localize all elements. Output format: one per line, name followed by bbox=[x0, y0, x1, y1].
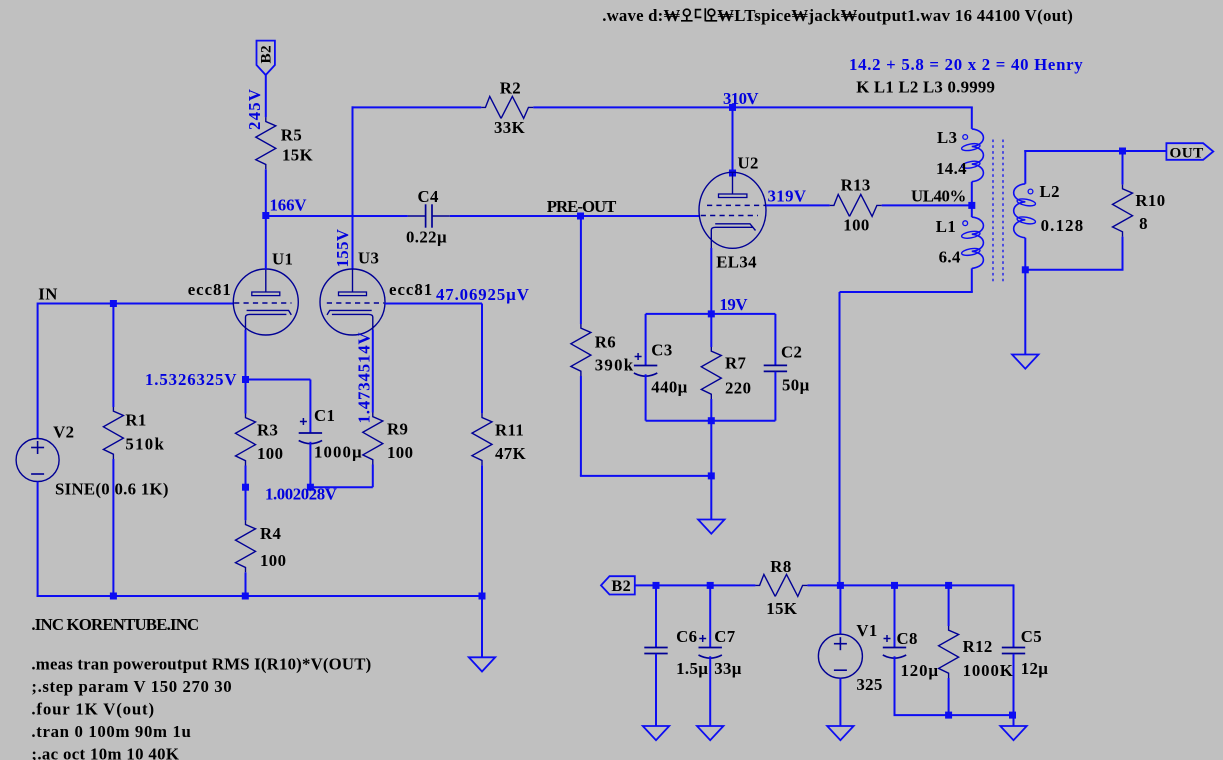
junction C1 bottom bbox=[307, 484, 314, 491]
svg-text:510k: 510k bbox=[125, 435, 165, 454]
svg-text:100: 100 bbox=[387, 443, 413, 462]
resistor R11 bbox=[472, 413, 492, 465]
triode U1 bbox=[233, 269, 298, 335]
svg-text:V1: V1 bbox=[856, 621, 877, 640]
svg-text:R9: R9 bbox=[387, 420, 408, 439]
svg-text:V2: V2 bbox=[53, 423, 74, 442]
wire RC network bottom rail bbox=[646, 420, 776, 422]
resistor R12 bbox=[948, 585, 950, 626]
wire B+ to transformer bbox=[971, 107, 973, 128]
junction UL40% tap bbox=[968, 202, 975, 209]
junction U2 plate top bbox=[729, 170, 736, 177]
resistor R3 bbox=[245, 380, 247, 414]
svg-text:R3: R3 bbox=[257, 421, 278, 440]
svg-text:319V: 319V bbox=[768, 187, 807, 206]
flag OUT port bbox=[1166, 143, 1213, 160]
wire RC bottom to junction bbox=[710, 421, 712, 476]
junction R12 bbox=[945, 582, 952, 589]
svg-text:15K: 15K bbox=[282, 145, 313, 164]
ground R11 bbox=[469, 657, 495, 671]
resistor R1 bbox=[112, 304, 114, 408]
svg-text:R2: R2 bbox=[500, 78, 521, 97]
svg-text:SINE(0 0.6 1K): SINE(0 0.6 1K) bbox=[55, 480, 169, 499]
svg-text:B2: B2 bbox=[258, 45, 275, 64]
svg-text:19V: 19V bbox=[719, 295, 747, 314]
svg-text:C1: C1 bbox=[314, 406, 335, 425]
svg-text:R10: R10 bbox=[1135, 191, 1165, 210]
svg-text:C8: C8 bbox=[897, 629, 918, 648]
svg-text:IN: IN bbox=[38, 285, 57, 304]
svg-text:C6: C6 bbox=[676, 627, 697, 646]
svg-text:8: 8 bbox=[1139, 214, 1148, 233]
svg-text:R5: R5 bbox=[281, 126, 302, 145]
svg-text:15K: 15K bbox=[766, 599, 797, 618]
capacitor C6 bbox=[655, 585, 657, 647]
svg-text:ecc81: ecc81 bbox=[188, 280, 232, 299]
svg-text:47.06925µV: 47.06925µV bbox=[436, 285, 530, 304]
wire B2 supply rail bbox=[635, 584, 756, 586]
capacitor C1 bbox=[309, 415, 311, 433]
capacitor C3 bbox=[645, 314, 647, 365]
svg-text:C2: C2 bbox=[781, 342, 802, 361]
junction 310V bbox=[729, 104, 736, 111]
svg-text:14.2 + 5.8 = 20 x 2 = 40 Henry: 14.2 + 5.8 = 20 x 2 = 40 Henry bbox=[849, 55, 1083, 74]
junction rail V2 bbox=[110, 593, 117, 600]
junction 1.53V node bbox=[242, 376, 249, 383]
capacitor C2 bbox=[774, 314, 776, 365]
svg-text:155V: 155V bbox=[333, 229, 352, 268]
junction C8 bbox=[891, 582, 898, 589]
wire V2 bottom bbox=[37, 482, 39, 598]
svg-text:166V: 166V bbox=[270, 196, 307, 215]
wire RC network top rail bbox=[646, 313, 776, 315]
wire U3 cathode bbox=[372, 330, 374, 413]
svg-text:47K: 47K bbox=[495, 444, 526, 463]
junction R3/R4 bbox=[242, 484, 249, 491]
wire L2 top to OUT bbox=[1024, 150, 1026, 184]
wire U3 grid to R11 bbox=[385, 303, 482, 305]
svg-text:.tran 0 100m 90m 1u: .tran 0 100m 90m 1u bbox=[31, 722, 191, 741]
svg-text:245V: 245V bbox=[245, 88, 264, 130]
svg-text:12µ: 12µ bbox=[1021, 659, 1049, 678]
svg-text:.INC KORENTUBE.INC: .INC KORENTUBE.INC bbox=[31, 615, 198, 634]
transformer core bbox=[992, 140, 994, 282]
ground RC network bbox=[698, 520, 724, 534]
wire PSU bottom rail bbox=[894, 714, 1014, 716]
svg-text:6.4: 6.4 bbox=[939, 247, 961, 266]
resistor R7 bbox=[710, 314, 712, 347]
wire R13 to UL tap bbox=[882, 204, 973, 206]
svg-text:ecc81: ecc81 bbox=[389, 280, 433, 299]
svg-text:325: 325 bbox=[856, 675, 882, 694]
wire rail corner to C5 bbox=[1013, 584, 1015, 647]
svg-text:50µ: 50µ bbox=[782, 376, 810, 395]
junction R12 bottom bbox=[945, 712, 952, 719]
svg-text:33K: 33K bbox=[494, 118, 525, 137]
svg-text:R13: R13 bbox=[841, 176, 871, 195]
wire U2 cathode to 19V bbox=[710, 248, 712, 314]
resistor R6 bbox=[580, 216, 582, 324]
junction V1 bbox=[837, 582, 844, 589]
svg-text:440µ: 440µ bbox=[651, 377, 687, 396]
wire L2 bottom bbox=[1024, 238, 1026, 270]
wire ground rail bbox=[37, 595, 483, 597]
wire node to C1 bbox=[246, 379, 311, 381]
svg-text:390k: 390k bbox=[595, 356, 635, 375]
resistor R13 bbox=[830, 194, 882, 216]
svg-text:.wave d:₩: .wave d:₩ bbox=[602, 6, 680, 25]
svg-text:310V: 310V bbox=[723, 89, 758, 108]
svg-text:1.4734514V: 1.4734514V bbox=[355, 332, 374, 424]
resistor R9 bbox=[363, 413, 383, 465]
svg-text:220: 220 bbox=[725, 378, 751, 397]
wire IN net bbox=[38, 303, 234, 305]
junction C6 bbox=[653, 582, 660, 589]
capacitor C5 bbox=[1002, 647, 1025, 649]
svg-text:₩LTspice₩jack₩output1.wav 16 4: ₩LTspice₩jack₩output1.wav 16 44100 V(out… bbox=[717, 6, 1073, 25]
ground C6 bbox=[643, 726, 669, 740]
triode U3 bbox=[320, 269, 385, 335]
junction PRE-OUT bbox=[577, 213, 584, 220]
wire V2 top bbox=[37, 303, 39, 439]
svg-text:100: 100 bbox=[260, 551, 286, 570]
svg-text:C5: C5 bbox=[1021, 627, 1042, 646]
inductor L1 bbox=[972, 217, 984, 268]
capacitor C8 bbox=[894, 585, 896, 647]
wire U1 plate bbox=[265, 216, 267, 270]
ground V1 bbox=[827, 726, 853, 740]
pentode U2 EL34 bbox=[699, 172, 766, 248]
resistor R10 bbox=[1122, 151, 1124, 185]
capacitor C4 bbox=[408, 215, 426, 217]
junction RC bottom bbox=[708, 417, 715, 424]
inductor L3 bbox=[972, 129, 984, 182]
svg-text:U3: U3 bbox=[358, 249, 379, 268]
svg-text:L2: L2 bbox=[1040, 182, 1060, 201]
junction 166V node bbox=[262, 212, 269, 219]
svg-text:U2: U2 bbox=[738, 153, 759, 172]
junction rail R11 bbox=[479, 593, 486, 600]
wire L1 bottom to V1 rail bbox=[971, 268, 973, 292]
svg-text:120µ: 120µ bbox=[901, 661, 939, 680]
svg-text:1000K: 1000K bbox=[963, 661, 1014, 680]
wire RC ground stem bbox=[710, 476, 712, 520]
svg-text:K L1 L2 L3 0.9999: K L1 L2 L3 0.9999 bbox=[856, 78, 995, 97]
svg-text:;.ac oct 10m 10 40K: ;.ac oct 10m 10 40K bbox=[31, 744, 179, 760]
wire top B+ rail bbox=[352, 106, 354, 269]
svg-text:C3: C3 bbox=[651, 341, 672, 360]
svg-text:R6: R6 bbox=[595, 333, 616, 352]
svg-text:R1: R1 bbox=[125, 411, 146, 430]
capacitor C7 bbox=[709, 585, 711, 647]
svg-text:1.5326325V: 1.5326325V bbox=[145, 370, 237, 389]
junction C7 bbox=[707, 582, 714, 589]
svg-text:R4: R4 bbox=[260, 524, 282, 543]
junction 19V node bbox=[708, 310, 715, 317]
resistor R5 bbox=[265, 75, 267, 118]
ground C7 bbox=[697, 726, 723, 740]
resistor R4 bbox=[245, 487, 247, 520]
svg-text:0.128: 0.128 bbox=[1041, 216, 1085, 235]
svg-text:L3: L3 bbox=[937, 128, 957, 147]
wire R11 ground stem bbox=[481, 596, 483, 657]
wire 166V to C4 to U2 grid bbox=[265, 215, 408, 217]
voltage source V1 bbox=[839, 585, 841, 634]
svg-text:1000µ: 1000µ bbox=[314, 443, 363, 462]
svg-text:100: 100 bbox=[843, 216, 869, 235]
svg-text:.meas tran poweroutput RMS I(R: .meas tran poweroutput RMS I(R10)*V(OUT) bbox=[31, 655, 371, 674]
svg-text:EL34: EL34 bbox=[716, 253, 757, 272]
wire R6 bottom to RC ground bbox=[580, 475, 711, 477]
junction rail R4 bbox=[242, 593, 249, 600]
ground C5 bbox=[1000, 726, 1026, 740]
svg-text:0.22µ: 0.22µ bbox=[406, 228, 447, 247]
junction OUT node bbox=[1119, 148, 1126, 155]
svg-text:14.4: 14.4 bbox=[936, 159, 967, 178]
svg-text:33µ: 33µ bbox=[714, 659, 742, 678]
svg-text:R7: R7 bbox=[725, 353, 746, 372]
inductor L2 bbox=[1014, 184, 1026, 238]
svg-text:UL40%: UL40% bbox=[911, 187, 966, 206]
junction C5 bottom bbox=[1009, 712, 1016, 719]
ground L2 bbox=[1012, 355, 1038, 369]
svg-text:L1: L1 bbox=[936, 217, 956, 236]
junction IN/R1 bbox=[110, 300, 117, 307]
svg-text:C4: C4 bbox=[418, 187, 440, 206]
flag B2 bottom bbox=[601, 576, 635, 594]
wire U1 cathode bbox=[245, 330, 247, 380]
svg-text:.four 1K V(out): .four 1K V(out) bbox=[31, 699, 155, 718]
svg-text:R8: R8 bbox=[770, 557, 791, 576]
svg-text:;.step param V 150 270 30: ;.step param V 150 270 30 bbox=[31, 677, 232, 696]
svg-text:1.5µ: 1.5µ bbox=[676, 659, 708, 678]
svg-text:C7: C7 bbox=[714, 627, 735, 646]
junction L2 ground node bbox=[1022, 266, 1029, 273]
wire L3 to tap bbox=[971, 182, 973, 217]
wire U2 g2 to R13 bbox=[766, 204, 830, 206]
svg-text:OUT: OUT bbox=[1170, 144, 1204, 161]
wire L2 ground stem bbox=[1024, 270, 1026, 355]
svg-text:R12: R12 bbox=[963, 637, 993, 656]
resistor R8 bbox=[755, 574, 807, 596]
resistor R2 bbox=[481, 96, 533, 118]
junction RC ground node bbox=[708, 472, 715, 479]
svg-text:100: 100 bbox=[257, 444, 283, 463]
flag B2 top bbox=[257, 41, 275, 75]
voltage source V2 bbox=[16, 439, 59, 482]
svg-text:R11: R11 bbox=[495, 421, 524, 440]
wire R10 bottom to L2 bbox=[1025, 269, 1123, 271]
svg-text:B2: B2 bbox=[611, 576, 631, 595]
wire U2 plate bbox=[732, 107, 734, 173]
korean text audio bbox=[681, 8, 717, 21]
svg-text:U1: U1 bbox=[272, 249, 293, 268]
